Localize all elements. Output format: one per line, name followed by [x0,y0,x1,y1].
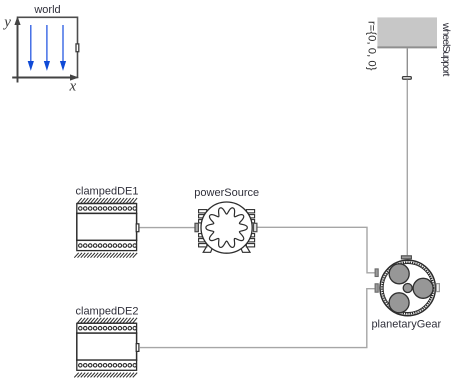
wheelSupport body rectangle [377,17,437,47]
svg-text:clampedDE2: clampedDE2 [76,305,139,317]
powerSource gear spline [206,208,247,248]
svg-text:clampedDE1: clampedDE1 [76,186,139,198]
world gravity arrow 1 [28,25,66,71]
powerSource component [194,187,259,253]
wire powerSource to planetaryGear sun [257,227,374,272]
world component [2,4,79,94]
powerSource left flange connector [195,223,198,231]
world frame box [18,17,78,77]
clampedDE2 body box [77,333,137,360]
clampedDE2 top hatch [77,318,137,323]
clampedDE2 bottom hatch [74,373,137,378]
world x-axis [12,77,73,79]
planetaryGear planet wheel 2 [413,278,433,298]
svg-text:planetaryGear: planetaryGear [371,319,441,331]
planetaryGear sun flange connector [375,269,378,277]
wire clampedDE1 to powerSource [140,227,195,229]
wheelSupport component [366,17,453,79]
powerSource right flange connector [254,223,257,231]
wire clampedDE2 to planetaryGear carrier [140,289,375,348]
clampedDE1 top roller band [77,204,137,214]
planetaryGear ring gear teeth [382,263,433,314]
planetaryGear top connector [401,256,411,259]
wheelSupport flange connector [403,77,412,80]
svg-text:x: x [68,79,76,95]
clampedDE1 component [74,186,139,258]
clampedDE1 body box [77,213,137,240]
planetaryGear right flange connector [436,284,439,292]
clampedDE2 component [74,305,139,377]
wire wheelSupport to planetaryGear [406,80,408,256]
planetaryGear component [371,256,441,331]
planetaryGear planet wheel 3 [389,293,409,313]
svg-text:r={0, 0, 0}: r={0, 0, 0} [366,21,378,71]
planetaryGear carrier flange connector [375,284,378,292]
powerSource side fins [199,210,255,247]
svg-text:y: y [2,14,11,30]
planetaryGear planet wheel 1 [389,264,409,284]
clampedDE1 bottom roller band [77,240,137,250]
clampedDE2 top roller band [77,323,137,333]
planetaryGear ring gear outer circle [380,260,435,315]
world gravity arrow 2 [46,25,48,61]
powerSource housing circle [201,202,252,253]
wheelSupport stem line [406,48,408,76]
clampedDE1 bottom hatch [74,253,137,258]
clampedDE1 top hatch [77,198,137,203]
planetaryGear sun wheel [403,284,412,293]
world y-axis [17,22,19,83]
clampedDE2 bottom roller band [77,360,137,370]
svg-text:world: world [33,4,60,16]
clampedDE1 flange connector [136,224,139,232]
svg-text:wheelSupport: wheelSupport [440,22,452,77]
world gravity arrow 3 [62,25,64,61]
world frame connector [76,44,79,52]
clampedDE2 flange connector [136,344,139,352]
svg-text:powerSource: powerSource [194,187,259,199]
powerSource feet [203,244,214,253]
